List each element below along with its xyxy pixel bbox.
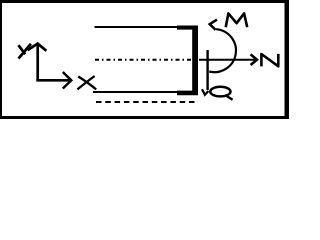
label N xyxy=(261,54,278,67)
y-axis arrow xyxy=(28,44,47,81)
moment arc M xyxy=(209,29,236,72)
shear force arrow Q xyxy=(202,50,208,95)
label Q xyxy=(210,87,232,100)
label M xyxy=(226,13,248,27)
label y xyxy=(18,44,31,59)
beam top edge line xyxy=(95,26,179,28)
beam bottom edge line xyxy=(93,91,178,93)
cut section bracket xyxy=(177,26,198,96)
moment arrowhead xyxy=(210,20,217,30)
frame border xyxy=(0,0,289,119)
beam centroid dash-dot line xyxy=(95,59,192,61)
normal force arrow N xyxy=(199,54,257,65)
dashed reference line xyxy=(96,101,196,103)
label x xyxy=(77,76,96,89)
x-axis arrow xyxy=(36,72,71,89)
beam internal-forces diagram xyxy=(0,0,289,119)
